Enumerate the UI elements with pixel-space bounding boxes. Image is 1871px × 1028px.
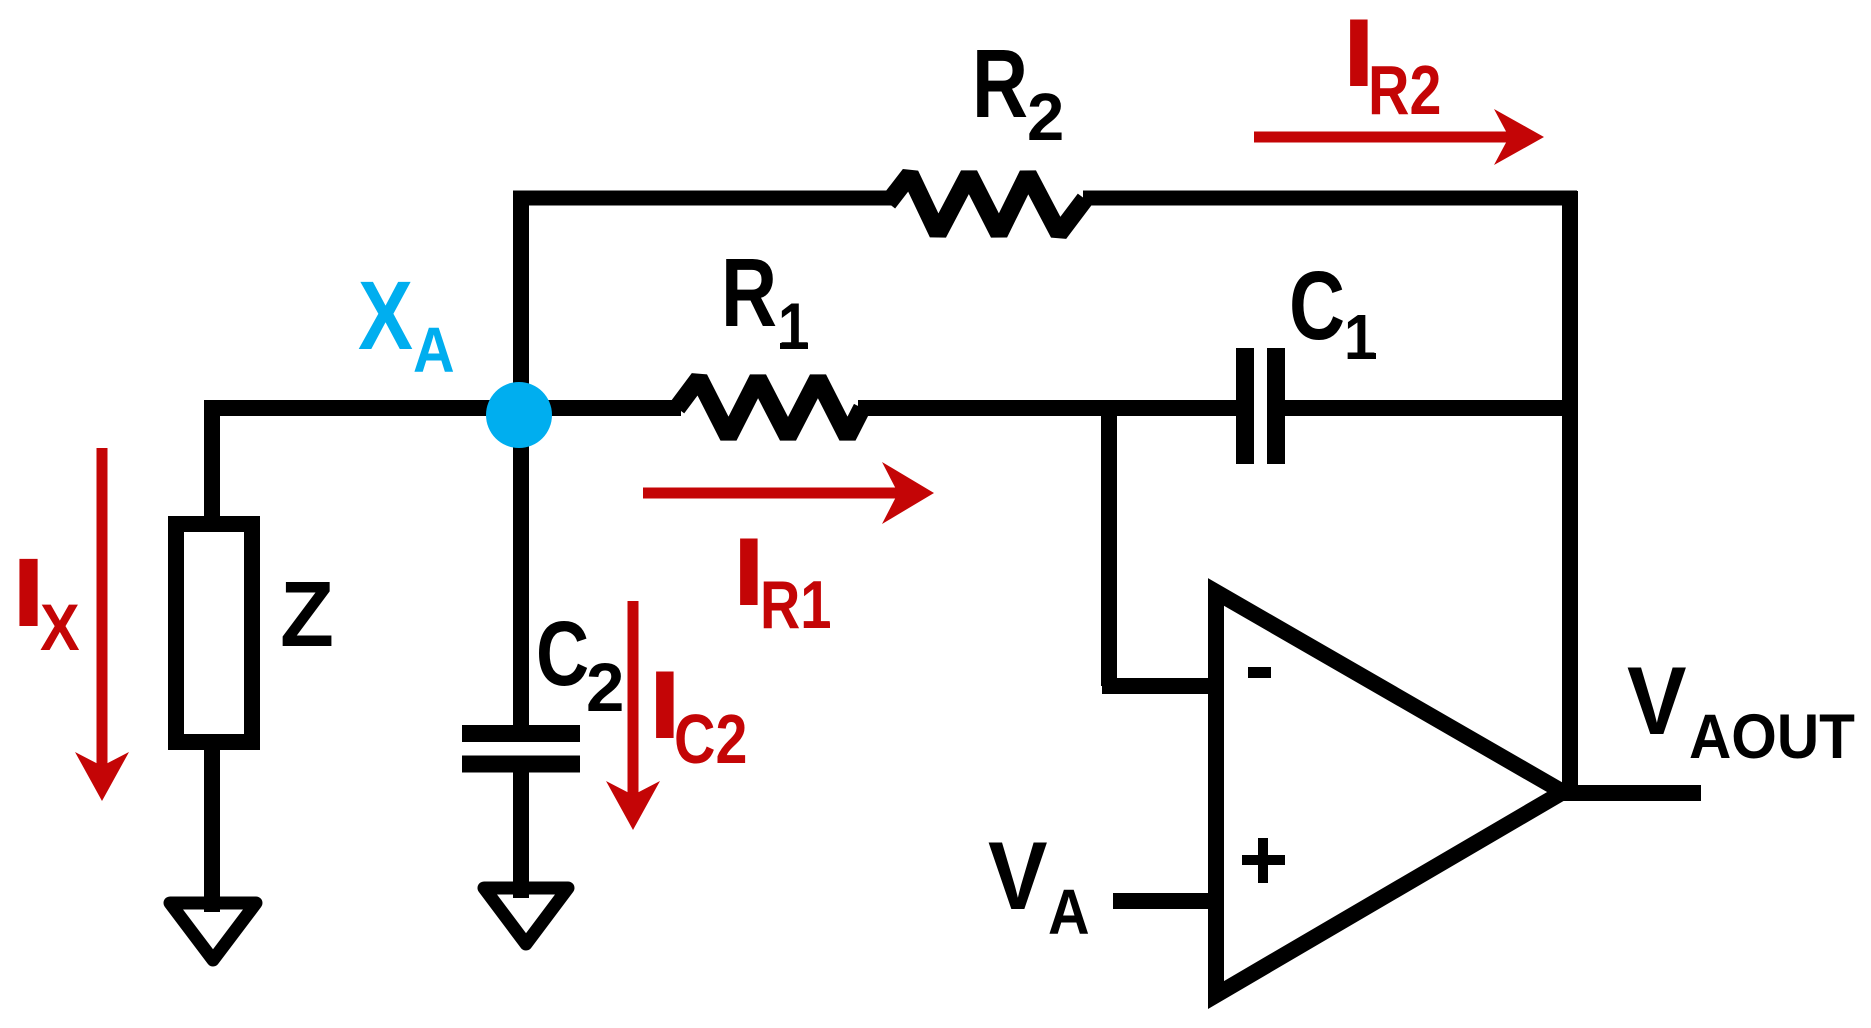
svg-text:1: 1 (1344, 301, 1376, 372)
wire R1 to C1 (858, 400, 1237, 416)
label C1 (1289, 251, 1376, 373)
svg-text:R1: R1 (760, 568, 831, 643)
wire branch down to inverting input (1101, 401, 1117, 686)
svg-text:AOUT: AOUT (1689, 701, 1855, 771)
svg-text:2: 2 (1027, 80, 1064, 155)
svg-text:R: R (721, 238, 777, 347)
svg-text:C2: C2 (674, 700, 747, 779)
label VA (988, 822, 1090, 948)
svg-text:V: V (1627, 647, 1687, 755)
label R2 (972, 29, 1064, 155)
wire node vertical (top wire through node to C2) (513, 193, 529, 733)
resistor R1 (677, 379, 862, 437)
current arrow IX (97, 448, 108, 768)
label IR2 (1342, 0, 1441, 129)
svg-text:R2: R2 (1368, 51, 1441, 130)
wire C1 to right vertical (1283, 400, 1570, 416)
resistor R2 (888, 175, 1085, 234)
wire right vertical feedback (1562, 191, 1578, 800)
svg-text:Z: Z (280, 563, 334, 667)
svg-text:C: C (536, 602, 589, 705)
label IX (11, 538, 80, 665)
node XA dot (486, 382, 552, 448)
label Z (280, 563, 334, 667)
svg-text:R: R (972, 29, 1028, 138)
wire left drop to Z (204, 401, 220, 520)
wire op-amp output (1556, 785, 1701, 801)
op-amp U1 (1216, 592, 1563, 995)
wire node row left (204, 400, 681, 416)
current arrow IR1 (643, 488, 900, 499)
label IR1 (732, 518, 831, 643)
capacitor C2 (462, 734, 580, 765)
svg-text:X: X (358, 263, 413, 371)
svg-text:2: 2 (586, 649, 624, 726)
wire top feedback right segment (1083, 191, 1577, 206)
impedance Z body (176, 524, 252, 742)
svg-text:X: X (40, 591, 80, 665)
wire top feedback left segment (513, 191, 892, 206)
svg-text:C: C (1289, 251, 1345, 360)
ground below C2 (484, 888, 568, 944)
current arrow IC2 (628, 601, 639, 797)
svg-text:1: 1 (778, 290, 809, 363)
current arrow IR2 (1254, 132, 1512, 143)
ground below Z (170, 903, 256, 960)
wire C2 to ground (513, 764, 529, 898)
wire to inverting input (1102, 678, 1216, 694)
svg-text:A: A (413, 314, 455, 385)
label C2 (536, 602, 624, 726)
wire Z to ground (204, 750, 220, 912)
label R1 (721, 238, 809, 363)
node label XA (358, 263, 455, 386)
label IC2 (648, 651, 747, 778)
svg-text:V: V (988, 822, 1048, 930)
op-amp plus pin mark (1242, 838, 1285, 883)
op-amp minus pin mark (1248, 667, 1271, 678)
capacitor C1 (1245, 348, 1276, 464)
svg-text:A: A (1048, 876, 1090, 947)
label VAOUT (1627, 647, 1855, 772)
wire VA to non-inverting input (1113, 893, 1216, 909)
